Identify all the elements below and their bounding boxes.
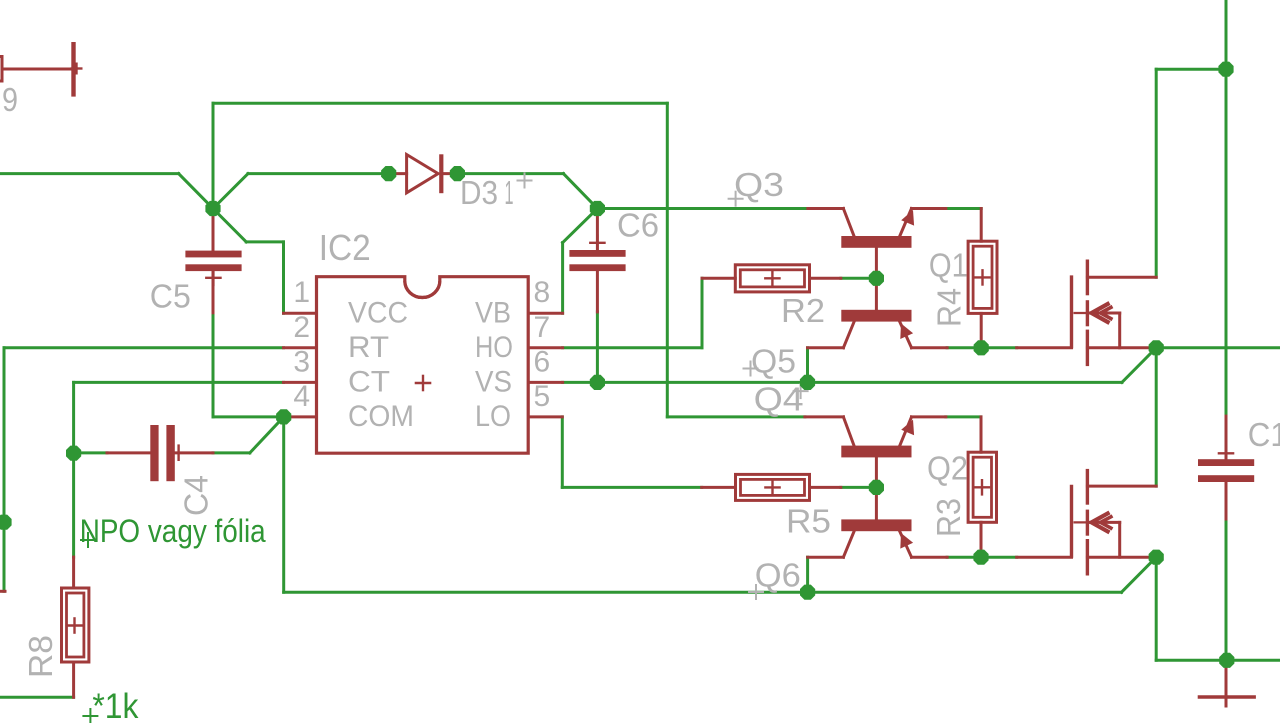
svg-text:RT: RT — [348, 331, 389, 364]
svg-text:VS: VS — [475, 366, 512, 399]
svg-text:IC2: IC2 — [319, 227, 371, 268]
svg-text:Q1: Q1 — [929, 247, 968, 284]
svg-text:Q5: Q5 — [751, 343, 796, 380]
svg-text:C6: C6 — [617, 207, 659, 244]
svg-text:NPO vagy fólia: NPO vagy fólia — [80, 513, 267, 549]
svg-text:R2: R2 — [781, 292, 825, 329]
svg-text:VB: VB — [475, 297, 511, 330]
svg-text:CT: CT — [348, 366, 390, 399]
svg-text:D3: D3 — [460, 174, 498, 211]
svg-text:R4: R4 — [931, 288, 968, 327]
svg-text:Q6: Q6 — [755, 557, 801, 594]
svg-text:Q2: Q2 — [927, 450, 968, 487]
svg-text:Q3: Q3 — [734, 166, 784, 203]
svg-text:*1k: *1k — [92, 687, 138, 723]
svg-text:6: 6 — [534, 345, 551, 378]
svg-text:1: 1 — [505, 174, 514, 211]
svg-text:4: 4 — [293, 380, 310, 413]
svg-text:HO: HO — [475, 331, 513, 364]
svg-text:R8: R8 — [22, 635, 59, 678]
svg-text:5: 5 — [534, 380, 551, 413]
svg-text:VCC: VCC — [348, 297, 408, 330]
svg-text:3: 3 — [293, 345, 310, 378]
svg-text:7: 7 — [534, 311, 551, 344]
svg-text:1: 1 — [293, 276, 310, 309]
svg-text:R3: R3 — [930, 498, 967, 537]
svg-text:R5: R5 — [786, 503, 831, 540]
svg-text:C4: C4 — [178, 475, 215, 516]
svg-text:9: 9 — [2, 81, 18, 118]
svg-text:Q4: Q4 — [754, 381, 804, 418]
svg-text:C5: C5 — [150, 277, 191, 314]
svg-text:LO: LO — [475, 400, 511, 433]
svg-text:COM: COM — [348, 400, 414, 433]
svg-text:C1: C1 — [1248, 416, 1280, 453]
svg-text:8: 8 — [534, 276, 551, 309]
svg-text:2: 2 — [293, 311, 310, 344]
